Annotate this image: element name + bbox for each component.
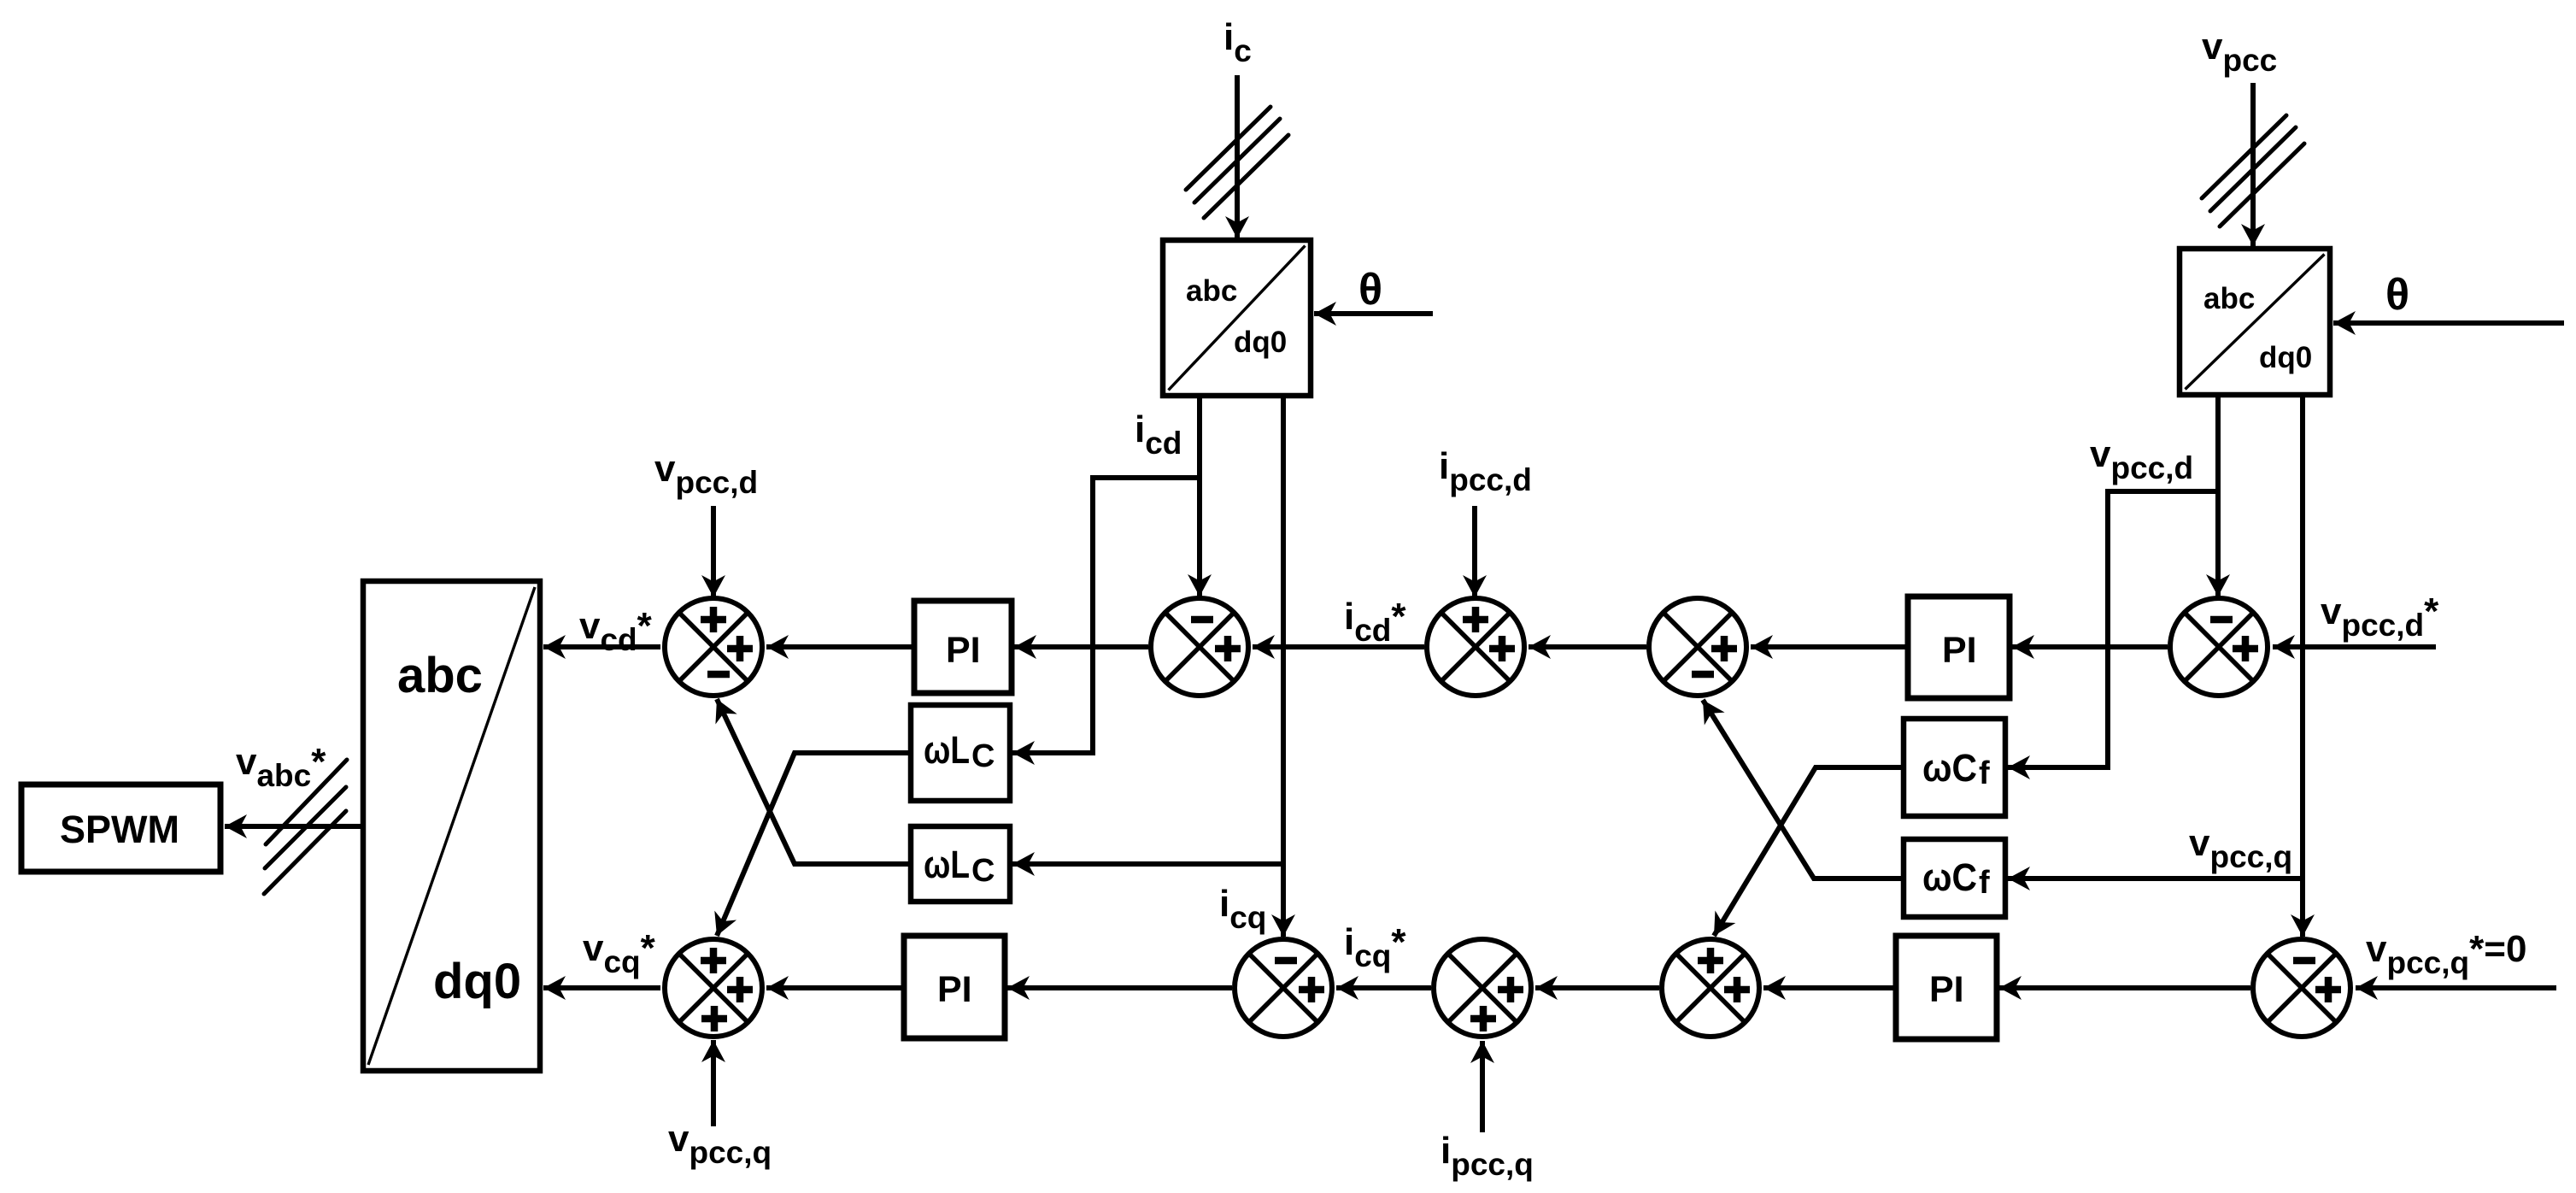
summing junction S6 (vcq* output) — [665, 939, 762, 1037]
svg-text:dq0: dq0 — [1234, 326, 1287, 359]
gain block wLc2 (fed by icq) — [911, 826, 1010, 902]
wire S5 to PI2 — [2012, 644, 2168, 649]
wire ipccq into summing junction S3b — [1480, 1041, 1485, 1132]
svg-text:dq0: dq0 — [2259, 341, 2312, 374]
wire wCf2 output diagonal into summing junction S4 bottom — [1703, 700, 1904, 879]
summing junction S4 (+PI2 -wCf2) — [1649, 598, 1746, 696]
wire S2 to PI1 — [1014, 644, 1148, 649]
wire icq from transform down into summing junction S7 — [1281, 396, 1286, 937]
wire S9 to PI4 — [1999, 985, 2250, 990]
three-phase slash marks on vabc* wire — [264, 760, 347, 894]
PI block PI3 (current q-axis) — [904, 936, 1005, 1038]
svg-text:ωL: ωL — [924, 843, 970, 886]
svg-text:θ: θ — [1358, 265, 1382, 314]
wire icd from transform down into summing junction S2 — [1197, 396, 1202, 596]
svg-text:ωC: ωC — [1922, 855, 1977, 899]
three-phase slash marks on ic wire — [1186, 107, 1288, 218]
wire vabc* (3-phase) from big transform to SPWM — [225, 824, 363, 829]
svg-text:C: C — [971, 853, 995, 889]
wire vpccd* reference into summing junction S5 — [2273, 644, 2436, 649]
wire vpcc input (3-phase) into abc/dq0 voltage transform — [2250, 83, 2256, 246]
summing junction S3 (+ipccd +icd*) — [1427, 598, 1524, 696]
svg-text:PI: PI — [937, 969, 972, 1010]
summing junction S8 (+wCf1 +PI4) — [1662, 939, 1759, 1037]
svg-text:PI: PI — [1942, 630, 1977, 671]
wire icq branch to wLc2 block — [1012, 861, 1283, 867]
wire PI2 to summing junction S4 — [1751, 644, 1908, 649]
svg-text:PI: PI — [1929, 969, 1964, 1010]
SPWM block — [21, 785, 220, 872]
wire PI4 to summing junction S8 — [1763, 985, 1896, 990]
wire vpccq from transform down into summing junction S9 — [2300, 395, 2305, 937]
gain block wCf1 (fed by vpccd) — [1904, 719, 2005, 816]
wire vpccd branch to wCf1 block — [2008, 491, 2218, 767]
svg-text:f: f — [1979, 755, 1990, 791]
PI block PI2 (pcc voltage d-axis) — [1908, 596, 2010, 698]
wire S7 to PI3 — [1007, 985, 1232, 990]
summing junction S5 (vpccd* - vpccd) — [2170, 598, 2268, 696]
svg-text:PI: PI — [946, 630, 981, 671]
wire vpccd from transform down into summing junction S5 — [2215, 395, 2221, 596]
wire vpccd feedforward into summing junction S1 — [711, 506, 716, 597]
wire wLc1 output diagonal into summing junction S6 top — [717, 753, 911, 936]
three-phase slash marks on vpcc wire — [2202, 115, 2304, 226]
svg-text:abc: abc — [2203, 282, 2255, 315]
wire theta into current transform — [1314, 311, 1433, 316]
transform block abc/dq0 (PCC voltage) — [2180, 249, 2330, 395]
wire wCf1 output diagonal into summing junction S8 top — [1714, 767, 1904, 936]
wire vcq* from S6 into big abc/dq0 transform — [543, 985, 660, 990]
wire ic input (3-phase) into abc/dq0 current transform — [1235, 75, 1240, 238]
svg-text:θ: θ — [2385, 270, 2409, 320]
wire theta into voltage transform — [2333, 320, 2564, 326]
wire wLc2 output diagonal into summing junction S1 bottom — [717, 699, 911, 864]
big transform block abc/dq0 (voltage reference) — [363, 581, 540, 1071]
summing junction S1 (vcd* output) — [665, 598, 762, 696]
wire vpccq branch to wCf2 block — [2008, 876, 2303, 881]
gain block wCf2 (fed by vpccq) — [1904, 839, 2005, 917]
PI block PI4 (pcc voltage q-axis) — [1896, 936, 1997, 1039]
svg-text:ωC: ωC — [1922, 746, 1977, 790]
svg-text:ωL: ωL — [924, 728, 970, 772]
wire S8 to summing junction S3b (icq* path) — [1535, 985, 1659, 990]
summing junction S7 (icq* - icq) — [1235, 939, 1332, 1037]
svg-text:f: f — [1979, 865, 1990, 901]
wire PI3 to summing junction S6 — [766, 985, 904, 990]
gain block wLc1 (fed by icd) — [911, 705, 1010, 801]
wire icd branch to wLc1 block — [1012, 478, 1200, 753]
wire vpccq feedforward into summing junction S6 — [711, 1040, 716, 1126]
wire S4 to summing junction S3 (icd* path) — [1529, 644, 1646, 649]
wire vcd* from S1 into big abc/dq0 transform — [543, 644, 660, 649]
svg-text:abc: abc — [397, 648, 483, 703]
svg-text:dq0: dq0 — [433, 954, 521, 1009]
summing junction S2 (icd* - icd) — [1151, 598, 1248, 696]
summing junction S9 (vpccq* - vpccq) — [2253, 939, 2350, 1037]
PI block PI1 (current d-axis) — [914, 601, 1012, 693]
svg-text:abc: abc — [1186, 274, 1237, 308]
transform block abc/dq0 (converter current) — [1163, 240, 1311, 396]
wire icq* from S3b to summing junction S7 — [1336, 985, 1431, 990]
wire ipccd into summing junction S3 — [1472, 506, 1477, 597]
wire vpccq*=0 reference into summing junction S9 — [2356, 985, 2556, 990]
wire icd* from S3 to summing junction S2 — [1253, 644, 1424, 649]
summing junction S3b (+icq* +ipccq) — [1434, 939, 1531, 1037]
svg-text:C: C — [971, 738, 995, 774]
wire PI1 to summing junction S1 — [766, 644, 914, 649]
svg-text:SPWM: SPWM — [60, 808, 179, 851]
